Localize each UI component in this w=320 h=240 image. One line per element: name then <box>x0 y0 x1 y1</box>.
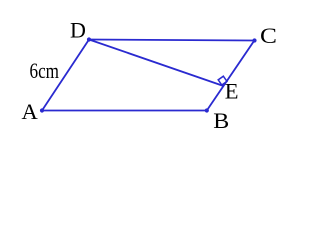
svg-text:E: E <box>225 79 239 104</box>
svg-text:C: C <box>260 23 277 48</box>
svg-text:A: A <box>22 99 39 124</box>
svg-text:B: B <box>213 108 229 130</box>
svg-text:6cm: 6cm <box>30 58 60 83</box>
svg-text:D: D <box>70 18 86 43</box>
